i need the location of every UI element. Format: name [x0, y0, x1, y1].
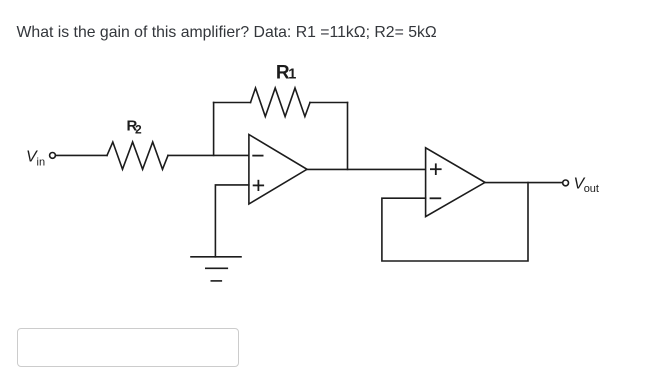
svg-text:1: 1 — [288, 67, 296, 83]
output terminal Vout — [563, 180, 569, 186]
resistor R1 — [251, 88, 311, 117]
wire U1 output to U2 non-inverting input — [307, 168, 426, 170]
op-amp U1 — [249, 135, 307, 205]
wire U1 non-inverting input — [215, 185, 248, 257]
ground — [191, 257, 241, 281]
wire feedback top left — [214, 102, 251, 104]
wire feedback down to U1 output — [347, 103, 349, 170]
wire R2 to U1 inverting input (node) — [168, 154, 249, 156]
label R2 — [127, 117, 143, 136]
svg-text:out: out — [584, 183, 599, 195]
svg-text:in: in — [37, 157, 46, 169]
answer input box — [17, 328, 239, 367]
wire feedback top right — [310, 102, 348, 104]
label Vout — [574, 176, 599, 196]
wire node up to feedback — [213, 103, 215, 156]
resistor R2 — [107, 142, 168, 169]
wire U2 feedback loop — [382, 183, 528, 261]
label R1 — [276, 63, 296, 84]
label Vin — [26, 149, 45, 169]
wire Vin to R2 — [56, 154, 107, 156]
input terminal Vin — [50, 153, 56, 159]
svg-text:2: 2 — [135, 123, 142, 137]
op-amp U2 — [426, 148, 485, 217]
wire U2 output to Vout — [485, 182, 562, 184]
